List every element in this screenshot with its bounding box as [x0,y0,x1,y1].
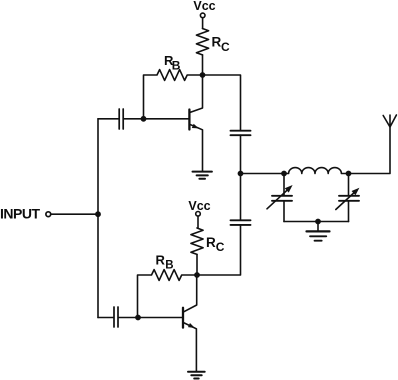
ground (Q2 emitter) [188,372,205,379]
wire: input bus to C1 (top coupling) [98,118,118,120]
transistor Q1 collector + wire to node A [189,75,202,113]
transistor Q2 emitter with wire to ground [183,322,196,371]
power terminal Vcc (top stage) [200,13,205,18]
svg-text:R: R [206,235,216,250]
wire: C6 to node I [119,317,138,319]
wire: node I to Q2 base [138,317,182,319]
capacitor C3 (bottom output coupling) [231,220,251,225]
wire: input terminal to node G [51,213,98,215]
capacitor C6 input coupling (bottom) [114,307,118,327]
node D (tank left) [281,171,287,177]
wire: tank bottom [284,221,349,223]
variable capacitor C5 plates [339,196,359,201]
node A (top collector node) [200,72,206,78]
inductor L1 [284,168,349,174]
svg-text:C: C [216,240,225,254]
transistor Q1 emitter with wire to ground [189,124,202,171]
wire: Vcc terminal to RC (bottom) [197,216,199,228]
variable capacitor C5 (tank right) lead [348,174,350,222]
svg-text:R: R [212,35,222,50]
variable capacitor C4 (tank left) lead [283,174,285,222]
wire: RC to node A [202,55,204,75]
capacitor C1 input coupling (top) [119,109,123,129]
node B (top base node) [141,116,147,122]
wire: node F to ground [317,222,319,232]
transistor Q1 emitter arrow [192,124,200,131]
svg-text:B: B [165,260,173,272]
wire: node E to antenna riser [349,127,391,174]
antenna [383,115,396,127]
node C (output junction) [238,171,244,177]
ground (tank) [307,230,330,232]
transistor Q1 base bar [188,110,190,130]
wire: C3 to bottom collector node [197,225,241,275]
svg-text:Vcc: Vcc [193,0,215,13]
svg-text:B: B [172,58,181,72]
ground (Q1 emitter) [193,172,212,179]
node F (tank ground node) [315,219,321,225]
input terminal [46,212,51,217]
resistor RC (bottom) [191,228,203,254]
wire: Vcc terminal to RC (top) [202,18,204,29]
capacitor C2 (top output coupling) [231,131,251,136]
svg-text:Vcc: Vcc [188,199,210,213]
wire: node B to Q1 base [144,118,189,120]
wire: C1 to node B [124,118,144,120]
node E (tank right) [346,171,352,177]
node I (bottom base node) [135,315,141,321]
wire: node C down to capacitor C3 [240,174,242,220]
wire: C2 to node C [240,135,242,173]
power terminal Vcc (bottom stage) [196,212,201,217]
wire: input bus vertical [97,119,99,318]
variable capacitor C5 arrow [336,192,355,210]
node G (input junction) [95,211,101,217]
resistor RB (top) with left lead wire [144,70,200,119]
svg-text:C: C [221,40,230,54]
wire: node A to output capacitor C2 [203,75,241,130]
wire: node C to tank left node [241,173,285,175]
resistor RC (top) [196,29,208,55]
transistor Q2 base bar [182,308,184,328]
transistor Q2 emitter arrow [188,323,196,330]
svg-text:INPUT: INPUT [0,206,40,222]
svg-text:R: R [156,253,166,268]
wire: RC to node H [196,254,198,275]
node H (bottom collector node) [194,272,200,278]
wire: input bus to C6 (bottom coupling) [98,317,113,319]
resistor RB (bottom) with left lead wire [138,270,195,318]
transistor Q2 collector + wire to node H [183,275,197,312]
variable capacitor C4 plates [272,196,292,201]
variable capacitor C4 arrow [267,189,289,209]
